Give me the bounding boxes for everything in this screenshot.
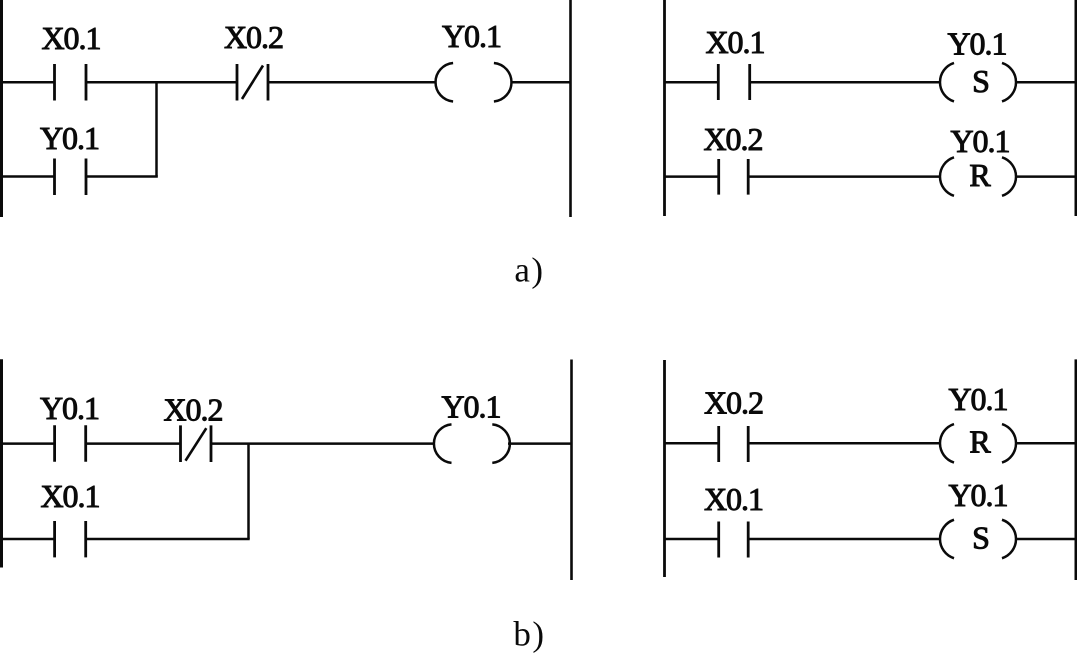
svg-text:Y0.1: Y0.1 <box>40 120 99 156</box>
right power rail (a-right) <box>1075 0 1077 216</box>
svg-text:a): a) <box>514 251 544 290</box>
svg-text:X0.1: X0.1 <box>704 481 763 517</box>
wire rung1 a-left: X0.1 to X0.2 <box>86 81 237 84</box>
wire rung1 b-left: rail to Y0.1 contact <box>0 442 55 445</box>
wire rung1 b-right: rail to X0.2 <box>665 442 719 445</box>
wire rung1 a-left: coil to right rail <box>511 81 571 84</box>
svg-text:Y0.1: Y0.1 <box>950 123 1009 159</box>
coil Y0.1 RESET (a-right) <box>940 157 1016 196</box>
svg-text:Y0.1: Y0.1 <box>947 26 1006 62</box>
coil Y0.1 RESET (b-right) <box>940 424 1016 463</box>
svg-text:Y0.1: Y0.1 <box>40 390 99 426</box>
svg-text:X0.2: X0.2 <box>224 19 283 55</box>
coil Y0.1 (b-left) <box>434 424 510 463</box>
svg-text:R: R <box>969 424 991 460</box>
junction branch vertical (a-left) <box>155 82 158 176</box>
contact X0.2 (NC) b-left <box>181 425 212 462</box>
wire rung1 b-right: X0.2 to reset coil <box>748 442 940 445</box>
left power rail (b-left) <box>0 359 3 567</box>
svg-text:Y0.1: Y0.1 <box>442 18 501 54</box>
contact X0.2 (NO) b-right <box>719 426 749 462</box>
wire rung1 a-right: rail to X0.1 <box>665 81 719 84</box>
left power rail (a-left) <box>0 0 3 217</box>
svg-text:X0.2: X0.2 <box>163 392 222 428</box>
svg-text:R: R <box>969 157 991 193</box>
wire rung1 b-left: Y0.1 to X0.2 <box>86 442 181 445</box>
svg-text:X0.1: X0.1 <box>40 478 99 514</box>
wire rung2 b-left: rail to X0.1 <box>0 538 55 541</box>
svg-text:b): b) <box>513 615 545 653</box>
svg-text:Y0.1: Y0.1 <box>948 381 1007 417</box>
wire rung2 a-right: rail to X0.2 <box>665 175 719 178</box>
contact Y0.1 (NO, seal-in) a-left <box>55 159 87 196</box>
contact X0.1 (NO) a-right <box>718 64 749 100</box>
contact X0.1 (NO) a-left <box>55 64 87 101</box>
svg-text:S: S <box>972 63 990 99</box>
left power rail (b-right) <box>663 360 666 577</box>
contact X0.2 (NO) a-right <box>719 159 749 195</box>
coil Y0.1 SET (a-right) <box>940 63 1016 101</box>
wire rung2 a-right: X0.2 to reset coil <box>748 175 940 178</box>
wire rung1 a-right: coil to right rail <box>1016 81 1077 84</box>
right power rail (b-left) <box>570 360 573 581</box>
junction branch vertical (b-left) <box>247 444 250 539</box>
contact X0.1 (NO) b-left <box>55 521 86 557</box>
wire rung1 a-left: rail to X0.1 <box>0 81 55 84</box>
right power rail (a-left) <box>569 0 572 217</box>
wire rung1 a-left: X0.2 to coil <box>268 81 436 84</box>
wire rung2 b-right: X0.1 to set coil <box>748 538 940 541</box>
contact X0.2 (NC) a-left <box>237 64 268 101</box>
contact X0.1 (NO) b-right <box>719 522 749 558</box>
coil Y0.1 SET (b-right) <box>940 520 1016 559</box>
wire rung2 b-left: contact to junction <box>86 538 250 541</box>
svg-text:Y0.1: Y0.1 <box>441 389 500 425</box>
svg-text:X0.2: X0.2 <box>703 121 762 157</box>
wire rung1 a-right: X0.1 to set coil <box>750 81 941 84</box>
wire rung2 a-left: rail to Y0.1 contact <box>0 175 55 178</box>
svg-text:X0.1: X0.1 <box>41 20 100 56</box>
right power rail (b-right) <box>1075 359 1077 580</box>
wire rung2 b-right: coil to right rail <box>1016 538 1077 541</box>
left power rail (a-right) <box>663 0 666 216</box>
wire rung1 b-left: X0.2 to coil <box>211 442 433 445</box>
wire rung1 b-right: coil to right rail <box>1016 442 1077 445</box>
wire rung2 b-right: rail to X0.1 <box>665 538 719 541</box>
svg-text:X0.2: X0.2 <box>704 385 763 421</box>
coil Y0.1 (a-left) <box>436 63 512 101</box>
svg-text:X0.1: X0.1 <box>705 24 764 60</box>
wire rung2 a-left: contact to junction <box>86 175 158 178</box>
wire rung2 a-right: coil to right rail <box>1016 175 1077 178</box>
wire rung1 b-left: coil to right rail <box>508 442 572 445</box>
svg-text:S: S <box>972 520 990 556</box>
contact Y0.1 (NO) b-left <box>55 425 86 462</box>
svg-text:Y0.1: Y0.1 <box>948 477 1007 513</box>
